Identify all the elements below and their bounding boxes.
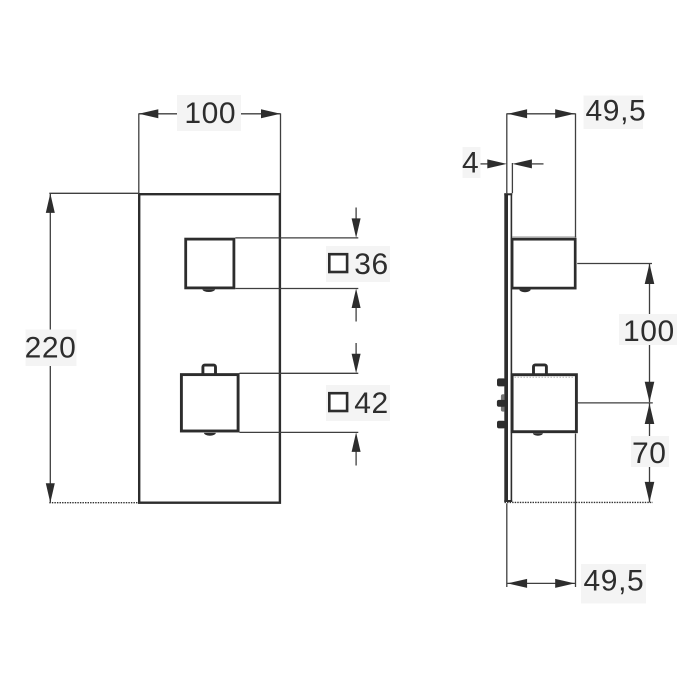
side view plate fitting bump 1 <box>497 378 506 386</box>
dimension line 100 side <box>649 264 651 403</box>
extension line top-right of front width dim <box>280 113 282 193</box>
extension line right of side depth dim (knob face) <box>575 113 577 237</box>
arrowhead left of dim 49,5 bottom <box>508 579 527 588</box>
arrowhead right of dim 100 <box>261 109 281 118</box>
extension line left of bottom depth dim <box>506 503 508 587</box>
side view upper knob nub <box>519 290 530 293</box>
square symbol of label 42 <box>329 393 347 411</box>
label 49,5 top background <box>584 96 644 130</box>
dimension line 70 side <box>649 404 651 503</box>
front view lower knob hidden edge (dotted) <box>183 428 236 430</box>
arrowhead pointing right at plate front <box>487 159 507 168</box>
label 49,5 bottom background <box>581 564 646 604</box>
label 100 (knob spacing) <box>619 314 677 345</box>
side view middle fitting outline halo <box>501 394 507 411</box>
svg-text:49,5: 49,5 <box>584 564 645 597</box>
arrowhead right of dim 49,5 top <box>555 109 575 118</box>
dimension line 49,5 bottom <box>507 582 576 584</box>
extension line top-left of front width dim <box>138 113 140 193</box>
arrowhead left of dim 49,5 top <box>508 109 527 118</box>
extension line left of side depth dim (plate front) <box>506 113 508 193</box>
front view upper square knob 36 <box>186 239 234 288</box>
leader line lower knob top (42 dim) <box>240 372 359 374</box>
side view lower knob hidden edge (dotted) <box>515 376 575 378</box>
leader line upper knob bottom (36 dim) <box>235 288 358 290</box>
arrowhead left of dim 100 <box>139 109 159 118</box>
side view lower knob body <box>512 375 576 432</box>
extension line top of height dim <box>49 192 139 194</box>
front view lower knob indicator nub <box>204 433 216 436</box>
down arrow to upper knob top <box>355 208 357 220</box>
label 42 background <box>326 385 390 421</box>
svg-text:36: 36 <box>354 248 389 281</box>
extension line bottom of 70 dim (dotted) <box>505 501 653 503</box>
side view lower knob tab <box>534 365 547 377</box>
svg-text:42: 42 <box>354 387 389 420</box>
svg-text:4: 4 <box>462 147 479 180</box>
dimension line 220 left <box>49 193 51 502</box>
svg-text:100: 100 <box>184 97 236 130</box>
svg-text:220: 220 <box>25 332 77 365</box>
extension line lower knob centerline <box>577 402 653 404</box>
arrowhead bottom of dim 100 side <box>645 382 655 403</box>
side view upper knob body <box>512 239 575 288</box>
arrowhead right of dim 49,5 bottom <box>555 579 575 588</box>
label 36 background <box>326 246 390 282</box>
svg-text:70: 70 <box>632 437 667 470</box>
up arrow to upper knob bottom <box>355 307 357 322</box>
dimension line 49,5 top <box>507 113 576 115</box>
svg-text:49,5: 49,5 <box>586 95 647 128</box>
front view upper knob hidden edge (dotted) <box>187 286 234 288</box>
arrowhead top of dim 70 <box>645 404 655 425</box>
leader line upper knob top (36 dim) <box>235 237 358 239</box>
dimension 4 leader right <box>531 163 544 165</box>
square symbol of label 36 <box>329 254 347 272</box>
arrowhead top of dim 100 side <box>645 264 655 285</box>
dimension line 100 top <box>139 113 281 115</box>
leader line lower knob bottom (42 dim) <box>240 431 359 433</box>
dimension 4 leader left <box>478 163 490 165</box>
arrowhead bottom of dim 220 <box>46 483 55 503</box>
front view lower knob tab <box>203 365 216 377</box>
front view lower square knob 42 <box>181 375 238 431</box>
extension line right of 4 dim (plate back) <box>511 163 513 193</box>
svg-text:100: 100 <box>623 315 675 348</box>
label 220 (front height) <box>26 330 77 367</box>
extension line bottom of height dim (dotted) <box>49 502 139 504</box>
side view wall plate <box>504 193 512 502</box>
arrowhead pointing left at plate back <box>512 159 532 168</box>
label 4 background <box>463 147 481 178</box>
front view upper knob indicator nub <box>202 289 215 292</box>
side view plate fitting bump 3 <box>497 421 505 429</box>
side view upper knob hidden edge <box>512 236 576 238</box>
extension line upper knob centerline <box>577 263 652 265</box>
extension line right of bottom depth dim <box>575 434 577 588</box>
side view plate fitting bump 2 <box>497 400 506 407</box>
front view faceplate body <box>139 194 280 503</box>
label 70 <box>631 436 669 467</box>
side view lower knob nub <box>533 433 543 436</box>
label 100 (front width) <box>177 95 241 131</box>
up arrow to lower knob bottom <box>355 451 357 466</box>
arrowhead bottom of dim 70 <box>645 482 655 503</box>
down arrow to lower knob top <box>355 343 357 355</box>
arrowhead top of dim 220 <box>46 193 55 213</box>
